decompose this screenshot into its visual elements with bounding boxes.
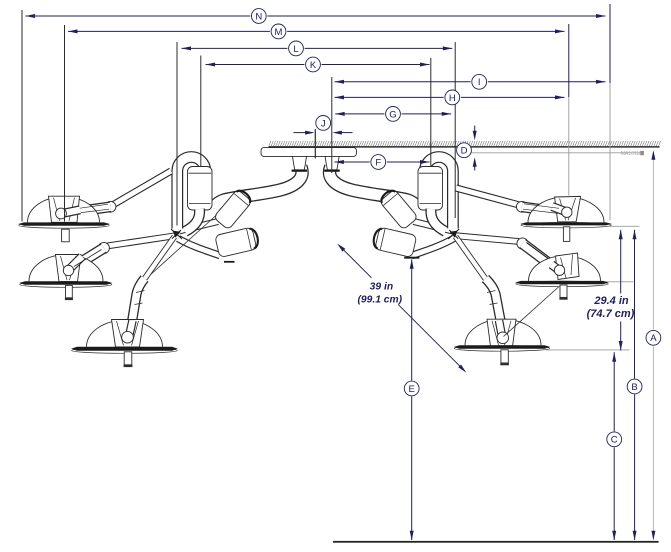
dimension J [316,116,331,131]
light head R1 [528,197,604,222]
dimension C [612,352,616,362]
svg-text:E: E [409,384,415,395]
right hub joint [450,231,458,238]
ceiling line [269,146,660,148]
elbow knuckle L2 [98,242,109,253]
dimension B [633,230,637,240]
elbow knuckle R1 [516,201,527,212]
left n-bend support tube [177,157,205,229]
reference line from head R1 disc [609,225,640,227]
light head R3 [465,319,541,345]
reference line from ceiling (A datum) [472,152,644,154]
svg-text:D: D [461,146,468,157]
svg-text:MA10118: MA10118 [621,151,642,157]
elbow knuckle L1 [105,201,116,212]
svg-text:K: K [310,60,317,71]
dimension D [457,143,472,158]
ceiling mount plate [261,148,357,157]
inner lines link R1 [524,204,559,209]
svg-text:B: B [631,382,637,393]
inner line link L2 [74,250,102,267]
extension line NI right [609,4,611,83]
dimension N [26,15,251,17]
svg-text:J: J [321,118,326,129]
dimension F [334,161,369,163]
dimension K [206,64,305,66]
tool holder support right lower [412,239,454,256]
joint lines on R3 forearm [487,291,496,293]
svg-text:N: N [255,11,262,22]
arm to head R1 [456,188,519,205]
ceiling hatch band [269,141,661,146]
svg-text:M: M [275,27,283,38]
dimension 39 in diagonal [337,244,345,252]
left arm horizontal sweep tube [214,167,302,209]
extension line N left [21,10,23,222]
arm to head L1 [114,171,172,205]
inner lines link L1 [80,204,108,208]
extension line LG right [454,42,456,218]
svg-text:C: C [611,435,618,446]
link L1 [77,207,111,212]
svg-text:I: I [478,77,481,88]
dimension H [335,96,444,98]
right cylinder neck [431,209,446,232]
arm to head R3 upper [456,237,487,280]
extension line IHGF left [331,77,333,173]
flex cylinder right [418,167,443,211]
link R2 [523,244,559,271]
right arm horizontal sweep tube [329,167,417,209]
arm to head R2 [457,236,520,242]
svg-text:H: H [449,93,456,104]
flex cylinder left [188,167,213,211]
tool holder support left upper [179,222,218,232]
dimension M [68,30,270,32]
svg-text:A: A [650,333,657,344]
elbow knuckle R2 [517,238,528,249]
tool holder support left lower [178,239,220,256]
joint lines on L3 forearm [136,291,145,293]
extension line J left [314,129,316,159]
reference line from head R3 disc [546,349,630,351]
tool holder support right upper [414,222,453,232]
reference line from head R2 disc [604,281,634,283]
dimension E [404,257,419,259]
arm to head R3 forearm [486,279,503,332]
extension line M left [64,25,66,222]
link L2 [71,248,104,269]
dimension A [652,152,654,330]
dimension L [182,47,288,49]
dimension I [335,81,471,83]
link R1 [522,207,556,212]
dimension G [335,113,384,115]
arm to head L2 [107,236,175,246]
tool cylinder left lower [215,226,260,257]
light head L3 [87,320,163,347]
detail line left [144,215,217,281]
dimension 29.4 in [619,230,623,240]
extension line MH right [568,24,570,97]
left cylinder neck [185,209,200,232]
svg-text:L: L [293,44,298,55]
extension line KF right [430,58,432,166]
tool cylinder right upper [378,187,418,230]
arm to head L3 upper [144,237,175,280]
floor line [333,541,659,543]
light head L2 [29,255,103,282]
extension line K left [200,56,202,167]
extension line L left [176,42,178,226]
svg-text:(74.7 cm): (74.7 cm) [587,308,635,320]
svg-text:29.4 in: 29.4 in [593,295,629,307]
mount post left [293,156,307,169]
arm to head L3 forearm [131,279,145,332]
light head R2 [529,256,601,281]
diagonal detail line [504,287,560,337]
tool cylinder left upper [213,187,253,230]
svg-text:39 in: 39 in [370,281,393,292]
mount post right [325,156,339,169]
tool cylinder right lower [372,226,417,257]
left hub joint [173,231,181,238]
svg-text:G: G [389,109,396,120]
svg-text:(99.1 cm): (99.1 cm) [357,294,402,305]
light head L1 [28,197,100,222]
right n-bend support tube [425,157,453,229]
svg-text:F: F [375,157,381,168]
